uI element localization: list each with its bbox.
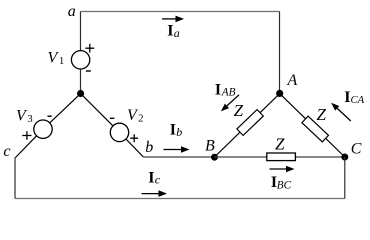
svg-text:I: I — [148, 169, 154, 186]
V1 polarity minus — [86, 70, 91, 72]
svg-text:BC: BC — [277, 179, 292, 191]
svg-text:I: I — [215, 82, 221, 99]
svg-text:I: I — [167, 22, 173, 39]
svg-text:c: c — [155, 173, 161, 187]
wire leg A to B — [215, 94, 280, 157]
wire node b to node B — [143, 156, 214, 158]
node C dot — [341, 154, 348, 161]
arrow IBC — [270, 168, 288, 170]
wire B to C — [215, 156, 345, 158]
wire right vertical corner to node A — [279, 12, 281, 94]
svg-text:I: I — [170, 122, 176, 139]
svg-text:a: a — [68, 3, 76, 20]
svg-text:Z: Z — [275, 135, 285, 154]
svg-text:a: a — [174, 26, 180, 40]
wire V3 to node c — [15, 136, 37, 158]
neutral junction dot — [77, 90, 84, 97]
svg-text:1: 1 — [59, 56, 64, 67]
wire junction to V2 — [81, 94, 113, 126]
wire node c down — [14, 158, 16, 199]
V3 polarity minus — [48, 115, 52, 117]
impedance Z (A-C leg) — [302, 116, 329, 142]
arrow Ia — [162, 18, 177, 20]
wire V2 to node b — [126, 139, 143, 157]
wire junction to V3 — [50, 94, 81, 123]
svg-text:I: I — [344, 89, 350, 106]
svg-text:Z: Z — [317, 105, 327, 124]
V2 polarity minus — [110, 117, 114, 119]
wire bottom — [15, 198, 345, 200]
wire vertical from node a to V1 — [80, 12, 82, 51]
svg-text:b: b — [176, 125, 182, 139]
node B dot — [211, 154, 218, 161]
V1 polarity plus — [85, 44, 94, 53]
svg-text:Z: Z — [234, 101, 244, 120]
node A dot — [276, 90, 283, 97]
source V2 — [110, 123, 128, 141]
impedance Z (A-B leg) — [237, 110, 263, 136]
source V1 — [71, 51, 89, 69]
wire V1 to neutral junction — [80, 69, 82, 94]
svg-text:V: V — [48, 49, 60, 66]
svg-text:3: 3 — [27, 114, 32, 125]
V3 polarity plus — [22, 131, 31, 140]
wire top a to corner — [81, 11, 280, 13]
svg-text:C: C — [351, 141, 362, 158]
svg-text:CA: CA — [351, 94, 365, 106]
svg-text:2: 2 — [138, 114, 143, 125]
wire leg A to C — [280, 94, 345, 157]
svg-text:c: c — [3, 143, 10, 160]
svg-text:V: V — [16, 108, 28, 125]
arrow Ib — [164, 149, 183, 151]
svg-text:V: V — [127, 107, 139, 124]
impedance Z (B-C leg) — [267, 153, 296, 161]
source V3 — [34, 120, 52, 138]
V2 polarity plus — [130, 134, 138, 142]
wire C down to bottom — [344, 157, 346, 199]
svg-text:A: A — [287, 72, 298, 89]
svg-text:B: B — [205, 137, 215, 154]
arrow IAB — [227, 95, 239, 106]
svg-text:b: b — [145, 139, 153, 156]
svg-text:AB: AB — [221, 87, 236, 99]
arrow Ic — [142, 193, 160, 195]
arrow ICA — [337, 108, 351, 121]
